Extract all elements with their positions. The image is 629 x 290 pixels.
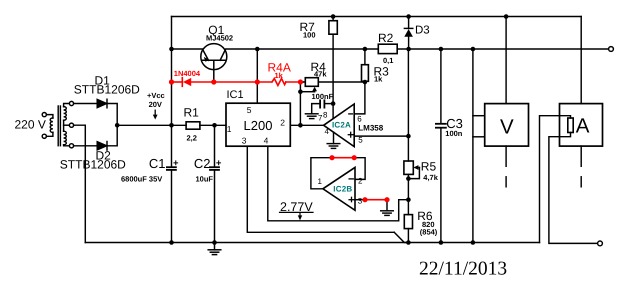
wire R4A end to R4 pot (303, 81, 305, 83)
op-amp IC2A plus sign (348, 134, 353, 136)
capacitor C3 lead upper (440, 49, 442, 123)
resistor R6 820 (404, 215, 412, 229)
wire 2.77V pointer arrow (299, 214, 301, 217)
node dot pin2 junction (298, 123, 303, 128)
svg-text:R1: R1 (184, 106, 200, 120)
svg-text:R2: R2 (378, 31, 394, 45)
wire D3 anode to output rail (408, 37, 410, 49)
wire 100nF left lead to ground (312, 104, 320, 114)
wire top secondary to D1 (74, 103, 98, 105)
node dot R7 at top rail (331, 14, 336, 19)
wire R7 bottom to IC2A pin8 (332, 34, 334, 118)
svg-text:3: 3 (242, 136, 247, 146)
wire V meter left stub lower (473, 136, 485, 138)
node red dot feedback left (329, 155, 334, 160)
wire primary top lead (46, 115, 53, 118)
node dot R5 R6 junction (406, 197, 411, 202)
transformer T1 secondary winding upper (64, 107, 67, 121)
node red dot R4A right (298, 79, 303, 84)
transformer T1 primary terminal top (42, 113, 46, 117)
svg-text:+: + (216, 158, 222, 169)
wire pin2 to IC2A output (290, 124, 323, 126)
wire R6 bottom lead (407, 229, 409, 243)
node dot R6 at ground rail (406, 240, 411, 245)
svg-text:2: 2 (358, 177, 363, 186)
svg-text:1k: 1k (275, 71, 284, 80)
svg-text:IC2B: IC2B (333, 185, 352, 194)
node secondary terminal middle (69, 123, 73, 127)
voltmeter V box (485, 104, 529, 147)
svg-text:1: 1 (318, 177, 323, 186)
wire pin3 to ground (386, 200, 388, 211)
svg-text:8: 8 (323, 111, 328, 120)
wire 100nF right lead (325, 103, 333, 105)
wire D1 cathode to join (107, 104, 117, 126)
svg-text:+: + (173, 158, 179, 169)
wire R5 wiper tie (408, 168, 419, 179)
transistor Q1 MJ4502 (201, 44, 227, 70)
svg-text:L200: L200 (244, 118, 273, 133)
node dot V minus at output rail (471, 47, 476, 52)
svg-text:4: 4 (264, 136, 269, 146)
wire left raw vertical lower (171, 171, 173, 243)
op-amp IC2B minus sign (349, 178, 353, 180)
svg-text:20V: 20V (149, 100, 162, 109)
wire R5 bottom to R6 (407, 174, 409, 214)
node dot C2 at main wire (212, 123, 217, 128)
svg-text:6: 6 (357, 115, 362, 124)
wire pin4 lead down and right (268, 146, 409, 221)
wire red from raw node to 1N4004 (172, 81, 183, 83)
wire V meter minus vertical (472, 49, 474, 243)
wire pin3 diagonal to ground rail (394, 232, 408, 242)
ground at IC2A pin4 (327, 143, 340, 145)
wire A shunt out to output terminal minus (549, 133, 598, 244)
wire D2 cathode to join (107, 125, 117, 146)
wire top rail (172, 16, 582, 18)
node red dot pin3 left (362, 197, 367, 202)
node red dot pin5 at red line (255, 79, 260, 84)
wire R4 wiper tie to left (300, 91, 314, 93)
wire R7 top lead (332, 17, 334, 21)
svg-text:2,2: 2,2 (187, 133, 197, 142)
svg-text:1: 1 (227, 124, 232, 134)
node dot pin5 at output rail (255, 47, 260, 52)
op-amp regulator IC1 L200 box (226, 103, 290, 146)
svg-text:220 V: 220 V (15, 118, 46, 132)
node secondary terminal bottom (69, 144, 73, 148)
svg-text:STTB1206D: STTB1206D (60, 158, 126, 172)
wire secondary upper to lower straight (63, 120, 65, 131)
svg-text:5: 5 (358, 135, 363, 144)
wire A meter probe solid (580, 146, 582, 166)
transformer T1 primary terminal bottom (42, 134, 46, 138)
svg-text:C2: C2 (194, 156, 211, 171)
node red dot feedback right (352, 155, 357, 160)
node dot C3 at output rail (439, 47, 444, 52)
wire 2.77V underline (280, 211, 314, 213)
svg-text:47k: 47k (314, 69, 327, 78)
node dot C1 at ground rail (169, 240, 174, 245)
svg-text:3: 3 (358, 197, 363, 206)
ground at IC2B pin3 (381, 210, 394, 212)
wire primary bottom lead (46, 132, 53, 136)
svg-text:IC2A: IC2A (332, 121, 351, 130)
wire secondary bottom lead (64, 145, 70, 146)
op-amp IC2A LM358 triangle (324, 104, 355, 147)
svg-text:5: 5 (247, 105, 252, 115)
capacitor C3 lead lower (440, 129, 442, 243)
wire R4 wiper vertical down to pin2 net (299, 82, 301, 125)
node dot D3 at output rail (406, 47, 411, 52)
wire left raw vertical upper (171, 17, 173, 167)
wire red R4A to R4 (286, 81, 303, 83)
wire A meter top lead from top rail (580, 17, 582, 104)
svg-text:R5: R5 (421, 160, 437, 174)
shunt resistor inside A meter (568, 118, 573, 133)
node red dot Q1 base (211, 79, 216, 84)
node dot V top at top rail (504, 14, 509, 19)
wire V meter probe solid (505, 146, 507, 166)
svg-text:2.77V: 2.77V (280, 200, 313, 214)
svg-text:100n: 100n (445, 129, 463, 138)
transformer T1 primary winding (50, 118, 53, 132)
wire main DC wire y125 (117, 124, 186, 126)
node dot C2 at ground rail (212, 240, 217, 245)
op-amp IC2B plus sign (349, 199, 354, 201)
wire V meter left stub upper (473, 115, 485, 117)
svg-text:V: V (500, 115, 514, 138)
wire pin3 lead down (247, 146, 394, 232)
svg-text:+Vcc: +Vcc (147, 91, 165, 100)
wire V meter top lead from top rail (505, 17, 507, 104)
capacitor C1 6800uF plates (167, 166, 176, 168)
svg-text:STTB1206D: STTB1206D (74, 82, 140, 96)
capacitor C2 lead lower (214, 171, 216, 243)
wire IC2B feedback loop (311, 158, 332, 189)
wire R4 right to R3 bottom (320, 81, 365, 83)
wire R3 bottom to IC2A pin6 (355, 81, 365, 114)
node dot 100nF at pin8 line (331, 101, 336, 106)
svg-text:A: A (576, 114, 590, 137)
node secondary terminal top (69, 101, 73, 105)
resistor R7 100 (329, 21, 337, 35)
svg-text:C1: C1 (149, 156, 166, 171)
capacitor C4 100nF plates (319, 100, 321, 107)
svg-text:6800uF 35V: 6800uF 35V (121, 174, 162, 183)
node dot raw/output rail left (169, 47, 174, 52)
op-amp IC2B LM358 triangle (323, 167, 355, 210)
resistor R4A zigzag (272, 79, 286, 86)
node dot C3 at ground rail (439, 240, 444, 245)
wire center tap down to ground rail (74, 125, 86, 242)
wire IC2B pin3 stub (355, 199, 365, 201)
wire red pin3 segment (365, 199, 387, 201)
node output terminal - (598, 241, 603, 246)
node output terminal + (609, 47, 614, 52)
node dot R4 wiper tie (298, 89, 303, 94)
node dot pin5 wire at R5 line (406, 134, 411, 139)
svg-text:100: 100 (303, 31, 316, 40)
svg-text:10uF: 10uF (196, 174, 214, 183)
wire output rail R2 to terminal (397, 48, 608, 50)
wire R3 top lead (364, 49, 366, 65)
svg-text:1N4004: 1N4004 (174, 69, 201, 78)
svg-text:(854): (854) (420, 228, 438, 237)
transformer T1 core (57, 106, 59, 146)
svg-text:LM358: LM358 (358, 124, 383, 133)
wire output rail Q1 to R2 (226, 48, 378, 50)
transformer T1 secondary winding lower (64, 131, 67, 145)
wire output rail left of Q1 (172, 48, 203, 50)
node dot R3 at output rail (363, 47, 368, 52)
node dot raw vertical at main wire (169, 123, 174, 128)
diode D3 (408, 17, 410, 29)
wire red 1N4004 to Q1 base to pin5 to R4A (191, 81, 271, 83)
wire D3 node down through pin5 tap to R5 (407, 49, 409, 161)
wire red feedback segment (332, 157, 354, 159)
node dot R5 wiper tie (406, 176, 411, 181)
wire Q1 base lead (213, 60, 215, 82)
wire secondary middle lead (64, 124, 70, 126)
wire +Vcc pointer arrow (154, 110, 156, 115)
svg-text:4,7k: 4,7k (423, 173, 438, 182)
node dot D1 D2 join (115, 123, 120, 128)
svg-text:D3: D3 (415, 24, 430, 36)
wire A meter probe dash (580, 177, 582, 187)
potentiometer R4 47k (305, 78, 318, 87)
potentiometer R5 4,7k (404, 161, 413, 174)
svg-text:4: 4 (325, 127, 330, 136)
wire ground rail up to A shunt (540, 116, 571, 243)
svg-text:22/11/2013: 22/11/2013 (419, 259, 507, 280)
wire IC2A pin5 plus input (354, 135, 408, 137)
resistor R1 2,2 (186, 122, 200, 129)
node dot V minus at ground rail (471, 240, 476, 245)
wire V meter probe dash (505, 177, 507, 187)
wire secondary top lead (64, 104, 70, 107)
svg-text:1k: 1k (374, 74, 383, 83)
op-amp IC2A minus sign (349, 113, 353, 115)
svg-text:2: 2 (280, 118, 285, 128)
resistor R3 1k (362, 65, 369, 82)
node red dot pin3 right (384, 197, 389, 202)
diode D4 1N4004 (181, 78, 183, 87)
svg-text:100nF: 100nF (312, 92, 334, 101)
node dot R3 bottom junction (363, 80, 368, 85)
capacitor C2 plates (210, 166, 219, 168)
node red dot raw at red line (169, 79, 174, 84)
node dot D3 at top rail (406, 14, 411, 19)
diode D1 (97, 99, 106, 107)
capacitor C3 plates (436, 123, 446, 125)
wire ground rail bottom (85, 242, 539, 244)
ground below C2 (214, 243, 216, 250)
resistor R2 0,1 (378, 44, 397, 53)
wire bottom secondary to D2 (74, 145, 98, 147)
capacitor C2 10uF lead upper (214, 125, 216, 166)
diode D2 (97, 142, 106, 150)
svg-text:IC1: IC1 (227, 89, 244, 101)
wire pin5 vertical from output rail to box top (256, 49, 258, 103)
wire IC2A pin4 to ground (333, 132, 335, 143)
ammeter A box (560, 104, 603, 147)
svg-text:MJ4502: MJ4502 (206, 34, 233, 43)
ground at 100nF (305, 113, 318, 115)
